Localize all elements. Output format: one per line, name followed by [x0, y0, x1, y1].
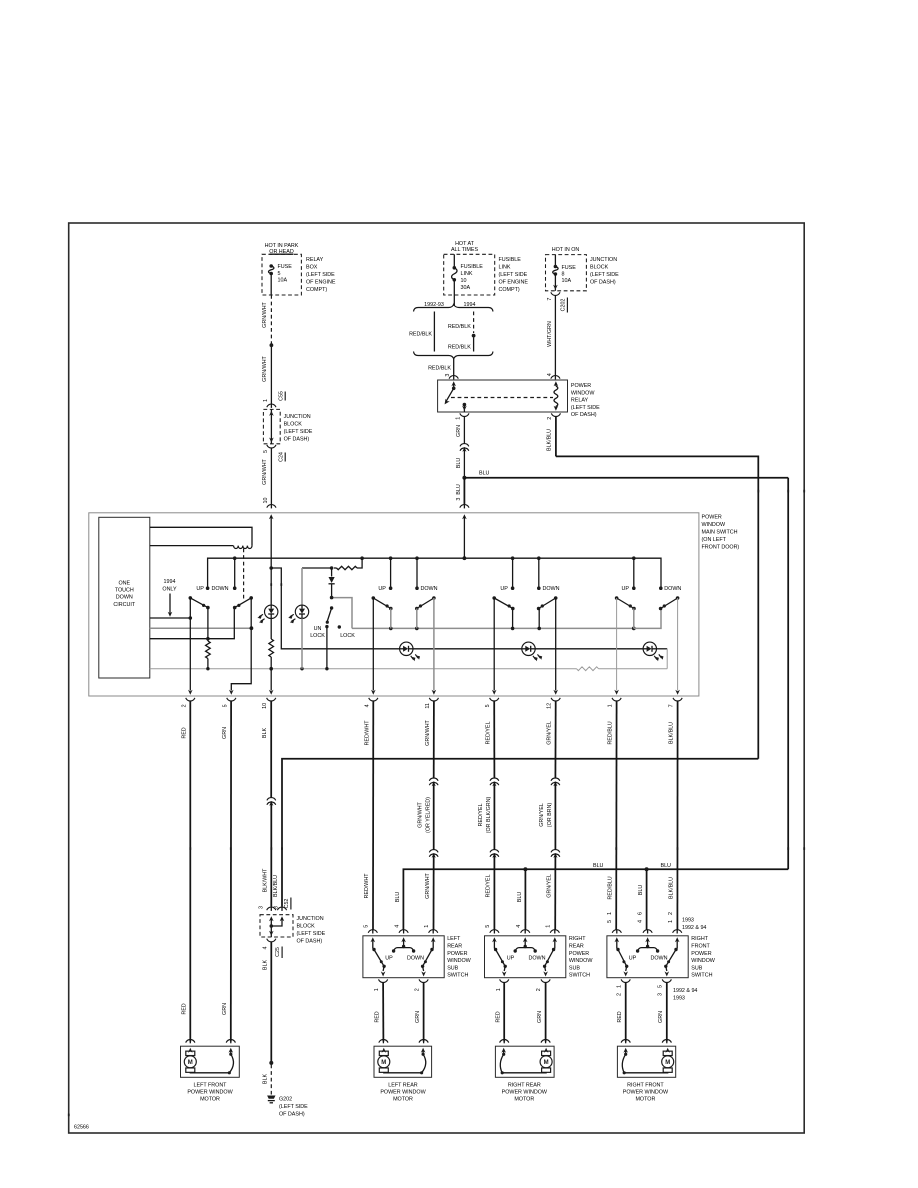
- sub switch right blade: [676, 939, 678, 949]
- wire BLU long vertical right side: [787, 478, 789, 870]
- wire BLU down to main switch pin 3: [463, 478, 465, 505]
- bottom common rail: [150, 668, 577, 670]
- svg-text:G202: G202: [279, 1097, 292, 1103]
- svg-text:2: 2: [616, 993, 622, 996]
- supply rail BLU: [208, 558, 661, 588]
- svg-text:C52: C52: [284, 899, 290, 909]
- wire pivot to pin 4: [372, 598, 374, 691]
- svg-text:1993: 1993: [673, 996, 685, 1002]
- svg-text:DOWN: DOWN: [407, 956, 424, 962]
- power window relay box: [438, 380, 568, 412]
- svg-text:3: 3: [657, 993, 663, 996]
- svg-text:BLU: BLU: [661, 863, 672, 869]
- svg-text:LINK: LINK: [461, 271, 473, 277]
- svg-text:BLU: BLU: [456, 458, 462, 469]
- svg-text:LINK: LINK: [499, 265, 511, 271]
- svg-text:BLU: BLU: [638, 885, 644, 896]
- svg-text:1: 1: [374, 988, 380, 991]
- wires RED GRN to left rear motor: [382, 983, 384, 1042]
- svg-text:RED/WHT: RED/WHT: [364, 720, 370, 746]
- right front UP DOWN switch on main switch: [632, 586, 636, 590]
- svg-text:DOWN: DOWN: [421, 586, 438, 592]
- svg-text:OF DASH): OF DASH): [571, 412, 597, 418]
- svg-text:1993: 1993: [682, 918, 694, 924]
- svg-text:UP: UP: [196, 586, 204, 592]
- diode branch splice: [330, 566, 334, 570]
- svg-text:GRN/WHT: GRN/WHT: [417, 801, 423, 827]
- svg-text:WINDOW: WINDOW: [691, 958, 715, 964]
- junction block C52 dashed outline: [260, 915, 293, 937]
- splice GRN/WHT illumination: [269, 566, 273, 570]
- svg-text:OF DASH): OF DASH): [297, 939, 323, 945]
- svg-text:RED/BLU: RED/BLU: [607, 876, 613, 899]
- svg-text:TOUCH: TOUCH: [115, 588, 134, 594]
- svg-text:RED: RED: [496, 1011, 502, 1022]
- wire down-contact link: [208, 609, 234, 639]
- right front sub switch connectors: [612, 930, 621, 933]
- left rear sub switch box: [363, 936, 444, 978]
- svg-text:RED/YEL: RED/YEL: [486, 875, 492, 898]
- svg-text:(OR BLK/GRN): (OR BLK/GRN): [486, 796, 492, 833]
- 1994 branch dashed wire RED/BLK: [473, 312, 475, 334]
- wire GRN to left front motor: [230, 702, 232, 1042]
- svg-text:SUB: SUB: [447, 965, 458, 971]
- svg-text:MAIN SWITCH: MAIN SWITCH: [702, 530, 738, 536]
- relay output contact pin 1: [463, 403, 467, 407]
- svg-text:ONE: ONE: [118, 581, 130, 587]
- svg-text:RIGHT REAR: RIGHT REAR: [508, 1082, 541, 1088]
- top year bracket: [414, 304, 494, 311]
- svg-text:BLOCK: BLOCK: [284, 422, 303, 428]
- svg-text:GRN: GRN: [456, 425, 462, 437]
- svg-text:WHT/GRN: WHT/GRN: [547, 321, 553, 347]
- svg-text:SUB: SUB: [569, 965, 580, 971]
- svg-text:ONLY: ONLY: [162, 586, 177, 592]
- svg-text:MOTOR: MOTOR: [393, 1097, 413, 1103]
- svg-text:ALL TIMES: ALL TIMES: [451, 247, 479, 253]
- svg-text:DOWN: DOWN: [212, 586, 229, 592]
- svg-text:POWER: POWER: [691, 951, 711, 957]
- svg-text:JUNCTION: JUNCTION: [590, 257, 617, 263]
- wire RED to left front motor: [189, 702, 191, 1042]
- svg-text:1: 1: [496, 988, 502, 991]
- one touch relay coil wiring: [150, 527, 252, 545]
- svg-text:11: 11: [425, 703, 431, 709]
- svg-text:BLU: BLU: [517, 892, 523, 903]
- sub switch left blade: [372, 939, 374, 949]
- wire BLK/BLU run left to junction block: [282, 759, 758, 907]
- svg-text:4: 4: [364, 704, 370, 707]
- wire from fusible link: [453, 295, 455, 306]
- svg-text:M: M: [665, 1060, 670, 1066]
- svg-text:(LEFT SIDE: (LEFT SIDE: [306, 272, 335, 278]
- svg-text:1: 1: [608, 704, 614, 707]
- wire LED2 to rail: [301, 619, 303, 669]
- connector C202 pin 7: [551, 292, 560, 295]
- relay pin 1 connector: [460, 413, 469, 416]
- svg-text:WINDOW: WINDOW: [569, 958, 593, 964]
- fold line ticks: [757, 490, 759, 493]
- svg-text:(LEFT SIDE: (LEFT SIDE: [279, 1104, 308, 1110]
- svg-text:BLU: BLU: [395, 892, 401, 903]
- splice BLU to right front sub switch: [645, 867, 649, 871]
- wire pivot to pin 1: [616, 598, 618, 691]
- svg-text:BLK/BLU: BLK/BLU: [273, 875, 279, 897]
- svg-text:BLOCK: BLOCK: [590, 265, 609, 271]
- svg-text:UP: UP: [622, 586, 630, 592]
- illumination lamp LED3: [400, 642, 413, 655]
- svg-text:LEFT FRONT: LEFT FRONT: [194, 1082, 228, 1088]
- svg-text:FUSE: FUSE: [562, 265, 577, 271]
- wire one touch to left front switch pivot: [150, 617, 191, 619]
- svg-text:10: 10: [461, 278, 467, 284]
- sub switch right blade: [432, 939, 434, 949]
- svg-text:SWITCH: SWITCH: [569, 973, 590, 979]
- illumination lamp LED2: [295, 605, 308, 618]
- svg-text:30A: 30A: [461, 285, 471, 291]
- svg-text:C55: C55: [278, 391, 284, 401]
- svg-text:FUSE: FUSE: [278, 264, 293, 270]
- relay switch blade: [446, 388, 454, 401]
- wire BLU branch to right: [464, 477, 788, 479]
- right front sub switch box: [607, 936, 688, 978]
- svg-text:M: M: [381, 1060, 386, 1066]
- svg-text:GRN/WHT: GRN/WHT: [425, 872, 431, 898]
- sub switch internal entries: [615, 937, 620, 942]
- svg-text:1992 & 94: 1992 & 94: [682, 925, 706, 931]
- svg-text:OF DASH): OF DASH): [279, 1111, 305, 1117]
- svg-text:LEFT: LEFT: [447, 936, 461, 942]
- right rear sub switch box: [485, 936, 566, 978]
- svg-text:(OR YEL/RED): (OR YEL/RED): [425, 797, 431, 833]
- supply stubs to switch contacts: [234, 558, 236, 588]
- relay coil: [554, 381, 559, 386]
- wire up-contact to resistor: [207, 608, 209, 641]
- main switch BLU entry pin 3: [462, 514, 467, 519]
- sub switch center tee: [524, 939, 526, 947]
- sub switch internal entries: [371, 937, 376, 942]
- svg-text:BLK: BLK: [262, 1074, 268, 1085]
- resistor below LED1: [269, 639, 274, 657]
- svg-text:GRN: GRN: [222, 1003, 228, 1015]
- svg-text:4: 4: [394, 925, 400, 928]
- svg-text:RED: RED: [617, 1011, 623, 1022]
- right front power window motor: [621, 1040, 630, 1043]
- connector C24 pin 5: [267, 445, 276, 448]
- svg-text:1: 1: [456, 417, 462, 420]
- svg-text:2: 2: [668, 912, 674, 915]
- svg-text:OF ENGINE: OF ENGINE: [499, 279, 529, 285]
- wire LED1 to resistor: [270, 619, 272, 640]
- svg-text:C202: C202: [561, 299, 567, 312]
- relay internal dashed link: [451, 397, 553, 399]
- svg-text:POWER: POWER: [447, 951, 467, 957]
- svg-text:RED/WHT: RED/WHT: [364, 873, 370, 899]
- svg-text:(LEFT SIDE: (LEFT SIDE: [499, 272, 528, 278]
- wires RED GRN to right front motor: [625, 983, 627, 1042]
- svg-text:1992-93: 1992-93: [424, 302, 444, 308]
- junction block C55 dashed outline (left of dash): [263, 409, 280, 443]
- svg-text:GRN: GRN: [222, 727, 228, 739]
- svg-text:POWER WINDOW: POWER WINDOW: [623, 1090, 669, 1096]
- svg-text:GRN/WHT: GRN/WHT: [262, 301, 268, 327]
- svg-text:REAR: REAR: [447, 944, 462, 950]
- left rear switch contact wires: [390, 609, 392, 629]
- svg-text:DOWN: DOWN: [529, 956, 546, 962]
- sub switch center tee: [647, 939, 649, 947]
- svg-text:1994: 1994: [164, 579, 176, 585]
- main switch GRN/WHT entry pin 10: [269, 514, 274, 519]
- svg-text:GRN/YEL: GRN/YEL: [547, 721, 553, 745]
- sub switch left blade: [616, 939, 618, 949]
- svg-text:6: 6: [638, 912, 644, 915]
- wire pivot to pin 11: [433, 598, 435, 691]
- svg-text:SWITCH: SWITCH: [447, 973, 468, 979]
- svg-text:5: 5: [485, 925, 491, 928]
- sub switch output connectors: [379, 979, 388, 982]
- svg-text:LOCK: LOCK: [310, 633, 325, 639]
- svg-text:GRN: GRN: [658, 1011, 664, 1023]
- svg-text:GRN/WHT: GRN/WHT: [425, 719, 431, 745]
- svg-text:DOWN: DOWN: [116, 595, 133, 601]
- svg-text:5: 5: [364, 925, 370, 928]
- wire GRN/WHT dashed from fuse 5: [270, 295, 272, 344]
- svg-text:POWER WINDOW: POWER WINDOW: [380, 1090, 426, 1096]
- wire pivot to pin 5b: [493, 598, 495, 691]
- svg-text:1: 1: [668, 920, 674, 923]
- svg-text:5: 5: [263, 450, 269, 453]
- left front power window motor: [186, 1040, 195, 1043]
- lock switch node: [330, 596, 334, 600]
- svg-text:RED: RED: [375, 1011, 381, 1022]
- svg-text:RIGHT: RIGHT: [569, 936, 586, 942]
- svg-text:BOX: BOX: [306, 265, 318, 271]
- svg-text:RED/YEL: RED/YEL: [485, 722, 491, 745]
- left rear sub switch connectors: [368, 930, 377, 933]
- svg-text:COMPT): COMPT): [306, 287, 327, 293]
- illumination lamp LED4: [522, 642, 535, 655]
- svg-text:1994: 1994: [464, 302, 476, 308]
- svg-text:FUSIBLE: FUSIBLE: [461, 264, 484, 270]
- wire GRN/YEL with inline connectors: [554, 702, 556, 779]
- svg-text:DOWN: DOWN: [664, 586, 681, 592]
- svg-text:FUSIBLE: FUSIBLE: [499, 257, 522, 263]
- svg-text:5: 5: [657, 985, 663, 988]
- sub switch right blade: [554, 939, 556, 949]
- svg-text:LOCK: LOCK: [340, 633, 355, 639]
- wire BLU bottom horizontal: [403, 869, 788, 930]
- wire pivot to pin 12: [555, 598, 557, 691]
- sub switch left blade: [493, 939, 495, 949]
- sub switch output connectors: [500, 979, 509, 982]
- wire BLK/BLU to right front sub switch: [676, 702, 678, 931]
- svg-text:UP: UP: [378, 586, 386, 592]
- svg-text:3: 3: [259, 906, 265, 909]
- right front switch contact wires: [633, 609, 635, 629]
- svg-text:RED/BLK: RED/BLK: [428, 366, 451, 372]
- svg-text:1: 1: [424, 925, 430, 928]
- power window main switch box: [89, 513, 699, 696]
- svg-text:JUNCTION: JUNCTION: [284, 414, 311, 420]
- illumination lamp LED5: [643, 642, 656, 655]
- svg-text:POWER: POWER: [571, 383, 591, 389]
- svg-text:JUNCTION: JUNCTION: [297, 916, 324, 922]
- 1994 branch splice: [472, 334, 476, 338]
- right rear UP DOWN switch on main switch: [511, 586, 515, 590]
- svg-text:7: 7: [547, 298, 553, 301]
- svg-text:M: M: [544, 1060, 549, 1066]
- svg-text:(LEFT SIDE: (LEFT SIDE: [284, 429, 313, 435]
- svg-text:1: 1: [607, 912, 613, 915]
- svg-text:BLK: BLK: [262, 960, 268, 971]
- junction block fuse 8 dashed outline: [546, 255, 587, 291]
- right rear power window motor: [500, 1040, 509, 1043]
- lock switch blade: [330, 606, 333, 609]
- svg-text:10: 10: [263, 498, 269, 504]
- svg-text:BLK/WHT: BLK/WHT: [262, 868, 268, 893]
- svg-text:8: 8: [562, 271, 565, 277]
- illumination feed wire: [271, 568, 399, 649]
- svg-text:RIGHT FRONT: RIGHT FRONT: [627, 1082, 664, 1088]
- wire BLK to ground: [270, 942, 272, 1062]
- svg-text:RED/YEL: RED/YEL: [478, 804, 484, 827]
- splice BLU: [462, 476, 466, 480]
- inline connector on BLK/WHT: [267, 798, 276, 801]
- svg-text:BLOCK: BLOCK: [297, 924, 316, 930]
- fuse F5 10A: [269, 264, 273, 268]
- svg-text:MOTOR: MOTOR: [200, 1097, 220, 1103]
- svg-text:OF DASH): OF DASH): [284, 437, 310, 443]
- svg-text:10A: 10A: [562, 278, 572, 284]
- wire BLK/WHT to junction block: [270, 702, 272, 798]
- gray wire one touch to down pivot: [150, 627, 252, 629]
- wire RED/YEL with inline connectors: [493, 702, 495, 779]
- svg-text:RED/BLK: RED/BLK: [409, 331, 432, 337]
- svg-text:M: M: [188, 1060, 193, 1066]
- one touch mechanical dashed link: [243, 549, 245, 601]
- splice node on GRN/WHT: [270, 343, 274, 347]
- svg-text:FRONT DOOR): FRONT DOOR): [702, 545, 740, 551]
- illumination lamp LED1: [265, 605, 278, 618]
- svg-text:REAR: REAR: [569, 944, 584, 950]
- svg-text:UP: UP: [500, 586, 508, 592]
- svg-text:WINDOW: WINDOW: [571, 390, 595, 396]
- svg-text:RED: RED: [181, 727, 187, 738]
- svg-text:RED/BLK: RED/BLK: [448, 324, 471, 330]
- svg-text:GRN/WHT: GRN/WHT: [262, 458, 268, 484]
- relay box dashed outline: [262, 254, 301, 295]
- left rear UP DOWN switch on main switch: [389, 586, 393, 590]
- wire BLK/WHT exit: [270, 669, 272, 691]
- wire WHT/GRN to relay pin 4: [554, 296, 556, 377]
- svg-text:RELAY: RELAY: [571, 398, 589, 404]
- relay switch common pin 3: [451, 381, 456, 386]
- connector C25 pin 4: [267, 939, 276, 942]
- svg-text:2: 2: [536, 988, 542, 991]
- svg-text:C24: C24: [278, 452, 284, 462]
- svg-text:5: 5: [222, 704, 228, 707]
- wire GRN below relay: [463, 417, 465, 444]
- svg-text:(LEFT SIDE: (LEFT SIDE: [590, 272, 619, 278]
- one touch down circuit box: [99, 517, 150, 678]
- svg-text:LEFT REAR: LEFT REAR: [388, 1082, 418, 1088]
- svg-text:2: 2: [415, 988, 421, 991]
- svg-text:12: 12: [547, 703, 553, 709]
- svg-text:WINDOW: WINDOW: [447, 958, 471, 964]
- svg-text:POWER: POWER: [569, 951, 589, 957]
- svg-text:4: 4: [547, 373, 553, 376]
- svg-text:RELAY: RELAY: [306, 257, 324, 263]
- svg-text:RED/BLK: RED/BLK: [448, 344, 471, 350]
- wire BLU to splice: [463, 447, 465, 476]
- svg-text:HOT IN ON: HOT IN ON: [552, 247, 580, 253]
- svg-text:BLK/BLU: BLK/BLU: [669, 877, 675, 899]
- wire RED/WHT to left rear sub switch: [372, 702, 374, 931]
- dashed wire BLK to G202: [270, 1065, 272, 1095]
- svg-text:7: 7: [669, 704, 675, 707]
- svg-text:BLU: BLU: [479, 471, 490, 477]
- svg-text:(OR BRN): (OR BRN): [547, 803, 553, 828]
- svg-text:BLU: BLU: [593, 863, 604, 869]
- junction block internal wire: [270, 409, 272, 443]
- wire down pivot to pin 5: [231, 598, 251, 691]
- svg-text:DOWN: DOWN: [543, 586, 560, 592]
- svg-text:(ON LEFT: (ON LEFT: [702, 537, 727, 543]
- wire BLK/BLU from relay pin 2: [555, 417, 557, 457]
- resistor to supply rail: [334, 567, 337, 569]
- splice BLU to right rear sub switch: [523, 867, 527, 871]
- svg-text:3: 3: [456, 498, 462, 501]
- svg-text:GRN/WHT: GRN/WHT: [262, 355, 268, 381]
- svg-text:(LEFT SIDE: (LEFT SIDE: [297, 931, 326, 937]
- svg-text:UP: UP: [629, 956, 637, 962]
- svg-text:4: 4: [638, 920, 644, 923]
- wire RED/BLK to relay pin 3: [453, 359, 455, 376]
- svg-text:UN: UN: [314, 626, 322, 632]
- left rear power window motor: [379, 1040, 388, 1043]
- fuse F8 10A: [554, 255, 556, 267]
- svg-text:4: 4: [516, 925, 522, 928]
- svg-text:RED: RED: [182, 1003, 188, 1014]
- svg-text:5: 5: [607, 920, 613, 923]
- rail inline resistor: [577, 667, 599, 671]
- junction block C52 internal wires: [269, 916, 274, 921]
- svg-text:1: 1: [546, 925, 552, 928]
- svg-text:GRN: GRN: [415, 1011, 421, 1023]
- wire pivot to pin 7: [677, 598, 679, 691]
- lock switch link to sub switch rail: [332, 598, 352, 629]
- wire GRN/WHT to main switch: [270, 448, 272, 505]
- rail dots: [206, 667, 209, 670]
- resistor left front: [206, 641, 211, 659]
- svg-text:DOWN: DOWN: [651, 956, 668, 962]
- svg-text:COMPT): COMPT): [499, 287, 520, 293]
- svg-text:MOTOR: MOTOR: [514, 1097, 534, 1103]
- svg-text:MOTOR: MOTOR: [635, 1097, 655, 1103]
- svg-text:5: 5: [485, 704, 491, 707]
- lock switch unlock contact wire: [326, 627, 328, 669]
- svg-text:GRN: GRN: [537, 1011, 543, 1023]
- wires RED GRN to right rear motor: [503, 983, 505, 1042]
- wire one touch to switch output node: [150, 638, 208, 640]
- bottom year bracket: [414, 352, 494, 359]
- ground splice: [269, 1061, 273, 1065]
- svg-text:POWER WINDOW: POWER WINDOW: [502, 1090, 548, 1096]
- sub switch internal entries: [492, 937, 497, 942]
- svg-text:BLK/BLU: BLK/BLU: [669, 722, 675, 744]
- fusible link 10 30A symbol: [453, 254, 455, 267]
- main switch bottom exit arrows and connectors: [188, 690, 193, 695]
